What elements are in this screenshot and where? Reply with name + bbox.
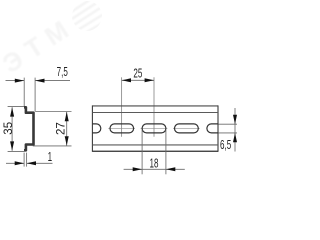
dimension 27: arrowhead up xyxy=(65,112,69,121)
dimension 27: dimension line xyxy=(66,112,68,146)
dimension 27: arrowhead down xyxy=(65,136,69,145)
dimension 1: dimension line tails xyxy=(6,162,53,164)
dimension 18: extension lines xyxy=(142,130,166,174)
dimension 25: dimension line xyxy=(122,79,154,81)
dimension 27: extension lines xyxy=(33,112,72,146)
front view: rail left cut edge xyxy=(91,105,93,151)
dimension 25: arrowhead right xyxy=(145,78,154,82)
front view: slot 1 xyxy=(110,124,134,133)
svg-text:25: 25 xyxy=(133,67,142,81)
dimension 35: arrowhead up xyxy=(10,107,14,116)
front view: partial slot at left cut xyxy=(92,124,100,133)
svg-text:6,5: 6,5 xyxy=(220,138,231,152)
dimension 7,5: extension lines xyxy=(24,78,35,112)
svg-text:27: 27 xyxy=(55,122,67,135)
svg-text:18: 18 xyxy=(150,157,159,171)
dimension 1: arrowhead right xyxy=(15,161,24,165)
svg-text:1: 1 xyxy=(48,150,52,164)
front view: slot 3 xyxy=(175,124,199,133)
svg-text:7,5: 7,5 xyxy=(57,65,68,79)
front view: rail bottom edge xyxy=(92,150,218,152)
dimension 25: arrowhead left xyxy=(122,78,131,82)
DIN rail cross-section profile (hat section, left view) xyxy=(24,107,34,150)
dimension 6,5: dimension line xyxy=(234,108,236,152)
front view: lower bend line xyxy=(92,144,218,146)
dimension 18: arrowhead left xyxy=(166,167,175,171)
front view: rail top edge xyxy=(92,105,218,107)
watermark logo circle (striped globe) xyxy=(62,0,124,54)
dimension 7,5: dimension line tails xyxy=(6,80,71,82)
dimension 35: extension lines xyxy=(8,107,25,152)
front view: upper bend line xyxy=(92,112,218,114)
dimension 6,5: arrowhead up xyxy=(233,133,237,142)
dimension 7,5: arrowhead left xyxy=(35,79,44,83)
dimension 18: dimension line xyxy=(124,168,185,170)
dimension 6,5: arrowhead down xyxy=(233,115,237,124)
dimension 35: arrowhead down xyxy=(10,141,14,150)
front view: slot centerlines (vertical, dim 25 extension lines) xyxy=(122,77,154,137)
front view: partial slot at right cut xyxy=(207,124,218,133)
svg-text:35: 35 xyxy=(3,122,15,135)
dimension 7,5: arrowhead right xyxy=(15,79,24,83)
front view: slot axis centerlines (horizontal) xyxy=(108,127,200,129)
dimension 18: arrowhead right xyxy=(133,167,142,171)
front view: rail right cut edge xyxy=(217,105,219,151)
dimension 1: arrowhead left xyxy=(27,161,36,165)
dimension 35: dimension line xyxy=(11,107,13,151)
dimension 1: extension lines xyxy=(24,153,27,167)
dimension 6,5: extension lines xyxy=(219,124,238,133)
front view: slot 2 xyxy=(142,124,166,133)
